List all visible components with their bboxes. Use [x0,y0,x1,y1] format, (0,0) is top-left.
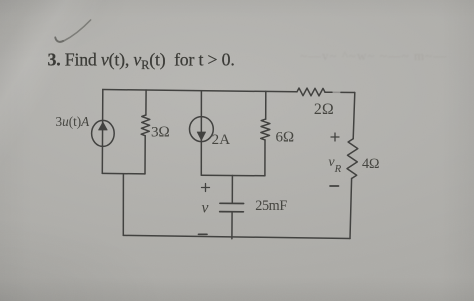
capacitor 25mF top plate [220,202,244,204]
minus sign of vR [330,185,339,187]
wire: 3 ohm branch upper lead [145,90,147,115]
svg-text:2Ω: 2Ω [314,101,334,118]
svg-text:3. Find v(t), vR(t) for t > 0: 3. Find v(t), vR(t) for t > 0. [48,50,235,73]
capacitor 25mF bottom lead [231,212,233,239]
resistor 3 ohm zigzag [141,115,150,136]
checkmark hook emphasis [55,38,63,42]
wire: 6 ohm branch upper lead [265,91,267,119]
svg-text:3u(t)A: 3u(t)A [56,114,91,129]
svg-text:v: v [202,199,209,216]
svg-text:~—v~ ^~w~ ~—~ m~—: ~—v~ ^~w~ ~—~ m~— [300,48,447,63]
wire: 2A source branch [200,91,202,176]
svg-text:3Ω: 3Ω [151,124,170,141]
resistor 2 ohm zigzag [297,88,325,96]
resistor 6 ohm zigzag [261,119,270,140]
capacitor 25mF bottom plate [220,211,244,213]
minus sign of v (capacitor) [199,233,208,235]
current source 2A circle [190,117,214,142]
current source 2A arrow (down) [197,132,205,140]
wire: top rail left section [103,90,297,92]
wire: top rail end segment [341,91,355,93]
resistor 4 ohm zigzag [347,139,358,179]
wire: drop from left sub-loop to bottom rail [122,174,124,236]
svg-text:25mF: 25mF [255,198,287,214]
faint show-through handwriting ghost [300,48,447,63]
plus sign of vR [331,133,339,141]
wire: bottom rail [123,235,350,238]
checkmark (pencil) [55,20,90,42]
plus sign of v (capacitor) [202,184,210,192]
wire: bottom of left sub-loop [102,172,145,175]
wire: left branch through current source [101,90,104,174]
wire: 3 ohm branch lower lead [144,136,146,174]
svg-text:2A: 2A [212,132,231,148]
wire: right branch upper lead [353,93,355,139]
current source 3u(t)A arrow (up) [99,122,108,130]
wire: 6 ohm branch lower lead [264,140,266,176]
svg-text:6Ω: 6Ω [276,129,294,145]
wire: bottom of middle sub-loop [201,174,265,177]
current source 3u(t)A circle [92,120,115,146]
wire: right branch lower lead [350,179,352,239]
capacitor 25mF top lead [231,176,233,204]
wire: faded segment of top rail [332,91,341,93]
wire: top rail right of 2 ohm [325,91,332,93]
svg-text:4Ω: 4Ω [362,156,379,172]
